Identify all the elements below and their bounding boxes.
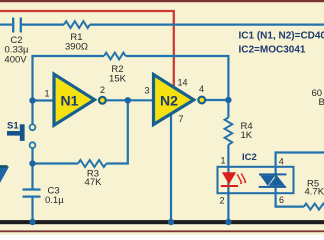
wire: node to R4 — [227, 100, 229, 118]
svg-text:1K: 1K — [241, 130, 253, 141]
capacitor C2 — [13, 18, 21, 33]
resistor R3 — [78, 160, 106, 167]
mains live (red) wire to pin 14 — [0, 11, 174, 86]
capacitor C3 — [23, 190, 41, 197]
wire: R2 to vertical drop at N2 output node — [126, 56, 229, 100]
switch S1 actuator — [20, 124, 25, 141]
resistor R5 — [304, 204, 324, 210]
svg-text:47K: 47K — [85, 177, 103, 188]
svg-text:2: 2 — [100, 85, 105, 95]
svg-text:IC2: IC2 — [242, 152, 257, 163]
svg-text:2: 2 — [220, 196, 225, 206]
wire: N2 output to node — [205, 99, 228, 101]
svg-text:IC2=MOC3041: IC2=MOC3041 — [239, 45, 306, 56]
wire: R2 branch from node A to N2 output node — [33, 56, 105, 57]
wire: N1 input pin 1 — [33, 99, 54, 101]
bottom frame border — [0, 230, 324, 232]
wire: R3 branch — [33, 162, 79, 164]
svg-text:IC1 (N1, N2)=CD40: IC1 (N1, N2)=CD40 — [239, 31, 324, 42]
svg-text:1: 1 — [221, 156, 226, 166]
switch S1 contact top — [30, 124, 36, 130]
svg-text:7: 7 — [179, 114, 184, 124]
junction R3/C3 — [29, 160, 35, 166]
N2 output bubble — [198, 97, 205, 104]
wire: node A vertical (upper) — [31, 56, 33, 125]
junction pin7 on rail — [168, 219, 174, 225]
svg-text:S1: S1 — [7, 121, 19, 132]
junction IC2 pin2 on rail — [225, 219, 231, 225]
wire: C3 to ground rail — [31, 198, 33, 222]
svg-text:4: 4 — [279, 157, 284, 167]
junction N2 out / R2 / R4 — [225, 97, 231, 103]
svg-text:15K: 15K — [109, 74, 127, 85]
ground rail (neutral) — [0, 220, 324, 224]
wire: R1 to right edge (top rail) — [90, 24, 324, 26]
opto-triac IC2 box — [218, 167, 294, 193]
wire: N1 output to N2 input — [106, 99, 153, 101]
junction node A / pin1 — [29, 97, 35, 103]
svg-text:400V: 400V — [4, 55, 27, 66]
gate N2 — [154, 75, 194, 125]
junction N1 out / R3 — [125, 97, 131, 103]
svg-text:0.1µ: 0.1µ — [45, 195, 64, 206]
svg-text:4.7K: 4.7K — [305, 187, 324, 198]
resistor R4 — [225, 118, 233, 145]
svg-text:N1: N1 — [61, 93, 79, 109]
svg-text:390Ω: 390Ω — [65, 42, 88, 53]
svg-text:N2: N2 — [160, 93, 178, 109]
wire: pin 4 of IC2 to load — [276, 153, 324, 175]
wire: R3 to N1 output node — [106, 100, 127, 163]
junction C3 on rail — [29, 219, 35, 225]
svg-text:6: 6 — [279, 195, 284, 205]
resistor R2 — [104, 53, 126, 60]
N1 output bubble — [99, 97, 106, 104]
top frame border — [0, 0, 324, 2]
wire: pin 6 of IC2 to R5 — [276, 188, 304, 207]
wire: R4 to IC2 pin 1 and LED, pin 2 to ground — [227, 145, 229, 222]
resistor R1 — [64, 21, 90, 28]
svg-text:3: 3 — [145, 86, 150, 96]
wire: node A vertical (S1 to C3) — [31, 148, 33, 189]
LED inside IC2 — [221, 172, 247, 187]
svg-text:B: B — [319, 97, 324, 108]
wire: C2 to R1 — [22, 24, 64, 26]
svg-text:1: 1 — [45, 89, 50, 99]
triac inside IC2 — [259, 173, 287, 188]
gate N1 — [54, 74, 95, 125]
wire: top rail left segment — [0, 24, 12, 26]
wire: N2 pin 7 to ground — [170, 108, 172, 222]
svg-text:14: 14 — [178, 78, 188, 88]
svg-text:4: 4 — [199, 84, 204, 94]
switch S1 contact bottom — [30, 142, 36, 148]
cropped gate at left edge — [0, 165, 9, 183]
